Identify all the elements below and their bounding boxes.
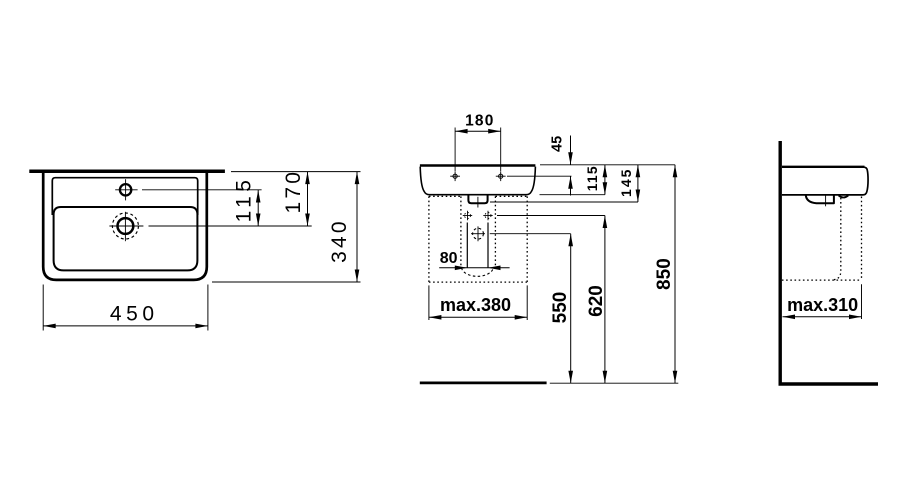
extension lines 450 (43, 285, 208, 331)
floor line thick (front view) (420, 382, 547, 385)
overflow hole crosshair (115, 179, 137, 200)
trap cover (side view) (806, 195, 834, 203)
dashed drain bend arc (front view) (462, 268, 494, 277)
dimension 115 (top view) (232, 176, 260, 226)
basin inner rim line (top view) (52, 178, 197, 215)
dimension 145 (front view) (618, 165, 640, 202)
dimension 340 (top view) (328, 172, 359, 282)
leader line from overflow hole (142, 189, 262, 191)
dotted siphon area bottom line (side view) (782, 279, 862, 281)
dimension 170 (top view) (282, 169, 310, 226)
drain hole cross (front view) (471, 226, 485, 241)
basin top edge (front view) (420, 164, 536, 166)
tap hole crosshair (109, 212, 143, 241)
dotted siphon area outer line (side view) (861, 197, 863, 281)
svg-text:max.380: max.380 (440, 295, 511, 315)
svg-text:145: 145 (618, 168, 634, 197)
leader from trap cover (490, 201, 638, 203)
svg-text:45: 45 (550, 136, 566, 152)
basin outer outline (top view) (43, 171, 207, 280)
trap cover (front view) (468, 195, 487, 203)
basin top edge (side view) (782, 166, 865, 168)
tie line fixing holes (507, 175, 572, 177)
leader from drain hole (490, 233, 571, 235)
tie line basin bottom (front view) (540, 194, 605, 196)
dimension max.310 (side view) (783, 295, 862, 319)
leader from small crosses (497, 215, 605, 217)
overflow hole circle (top view) (120, 184, 131, 195)
wall line (side view) (779, 141, 782, 383)
svg-text:80: 80 (440, 250, 458, 267)
basin body outline (front view) (420, 167, 535, 195)
dimension 115 (front view) (584, 165, 607, 195)
extension lines 180 (455, 128, 501, 172)
svg-text:max.310: max.310 (787, 295, 858, 315)
bowl outline (top view) (54, 207, 198, 270)
extension line max.310 (861, 284, 863, 319)
fixing hole cross left (front view) (450, 171, 460, 181)
svg-text:450: 450 (110, 302, 159, 325)
dimension 45 (front view) (550, 136, 573, 196)
svg-text:620: 620 (586, 285, 607, 317)
tie line basin bottom (top view) (212, 281, 361, 283)
svg-text:850: 850 (654, 258, 675, 290)
dimension 850 (front view) (654, 165, 677, 383)
underside bump (side view) (839, 195, 849, 197)
basin profile (side view) (782, 167, 868, 195)
dimension 450 (top view) (43, 302, 208, 328)
dimension 80 (front view) (439, 250, 509, 270)
tie line top edge (front view) (540, 164, 675, 166)
drain centerline (front view) (477, 197, 479, 208)
svg-text:340: 340 (328, 218, 351, 263)
extension lines max.380 (429, 285, 527, 320)
dimension max.380 (front view) (429, 295, 527, 319)
floor line thin (front view) (550, 382, 679, 384)
solid pipe lines (front view) (467, 223, 488, 268)
svg-text:115: 115 (232, 176, 255, 223)
drain centerline (side view) (825, 196, 827, 207)
small cross right (front view) (483, 211, 492, 220)
wall line (top view) (29, 169, 225, 173)
dimension 620 (front view) (586, 216, 607, 384)
floor line (side view) (779, 382, 879, 385)
dashed pedestal outline (front view) (429, 196, 527, 282)
svg-text:180: 180 (465, 112, 494, 129)
dotted siphon area inner line (side view) (832, 198, 841, 280)
svg-text:115: 115 (584, 165, 600, 191)
tap hole ring (top view) (118, 218, 134, 234)
dotted siphon pipe lines (front view) (461, 196, 496, 266)
small cross left (front view) (463, 211, 472, 220)
top extension line from wall (left view) (231, 171, 361, 173)
fixing hole cross right (front view) (496, 171, 506, 181)
leader line from tap hole (149, 225, 312, 227)
dimension 550 (front view) (550, 234, 573, 384)
dimension 180 (front view) (455, 112, 501, 133)
svg-text:170: 170 (282, 169, 305, 214)
svg-text:550: 550 (550, 292, 571, 324)
tap hole dashed circle (top view) (112, 213, 138, 239)
